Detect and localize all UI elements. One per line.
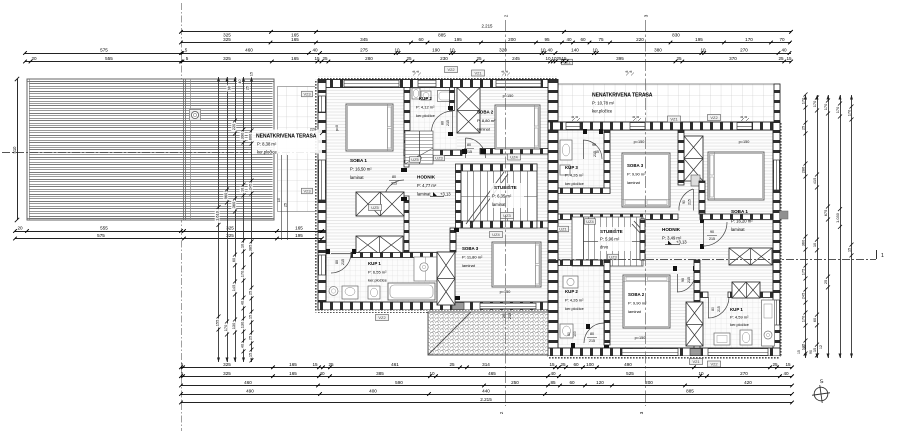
svg-text:8: 8	[412, 70, 416, 72]
svg-text:+3,13: +3,13	[676, 240, 687, 245]
svg-text:461: 461	[391, 362, 399, 367]
svg-text:8: 8	[740, 116, 744, 118]
svg-text:800: 800	[248, 133, 253, 140]
svg-text:325: 325	[223, 37, 231, 42]
svg-text:465: 465	[488, 371, 496, 376]
svg-text:170: 170	[223, 324, 228, 331]
svg-text:314: 314	[482, 362, 490, 367]
svg-text:40: 40	[319, 371, 325, 376]
svg-text:UZ4: UZ4	[586, 219, 594, 224]
svg-text:KUP 3: KUP 3	[565, 165, 578, 170]
svg-text:STUBIŠTE: STUBIŠTE	[600, 227, 623, 234]
svg-text:5: 5	[185, 48, 188, 53]
svg-text:P: 8,80 m²: P: 8,80 m²	[477, 118, 496, 123]
svg-text:15: 15	[249, 72, 253, 76]
svg-text:15: 15	[797, 350, 801, 354]
svg-text:360: 360	[800, 239, 805, 246]
svg-text:170: 170	[846, 109, 851, 116]
svg-text:525: 525	[626, 371, 634, 376]
svg-text:25: 25	[284, 203, 288, 207]
svg-text:830: 830	[672, 32, 680, 37]
terrace deck hatch	[27, 79, 274, 220]
svg-text:215: 215	[341, 259, 345, 265]
bottom wall windows	[452, 303, 464, 310]
svg-text:195: 195	[695, 37, 703, 42]
svg-text:8: 8	[744, 116, 748, 118]
svg-text:245: 245	[800, 293, 805, 300]
svg-text:40: 40	[566, 37, 572, 42]
svg-text:80: 80	[392, 175, 396, 179]
right vertical dim chains	[805, 95, 807, 358]
svg-text:20: 20	[31, 56, 37, 61]
svg-text:90: 90	[710, 230, 714, 234]
svg-text:UZ5: UZ5	[411, 157, 419, 162]
svg-text:345: 345	[360, 37, 368, 42]
svg-text:100: 100	[586, 362, 594, 367]
door arc SOBA2-left	[466, 138, 486, 158]
svg-text:575: 575	[100, 48, 108, 53]
svg-text:laminat: laminat	[627, 180, 641, 185]
KUP2-right walls	[558, 260, 610, 266]
svg-text:UZ5: UZ5	[371, 205, 379, 210]
svg-text:SOBA 1: SOBA 1	[731, 209, 748, 214]
right terrace (nenatkrivena terasa)	[557, 84, 780, 122]
svg-text:ker.pločice: ker.pločice	[565, 306, 585, 311]
door arc KUP3	[583, 140, 602, 159]
wall SOBA1 | KUP2/HODNIK	[404, 88, 410, 156]
vent box below shaft	[691, 175, 700, 186]
svg-text:2: 2	[504, 14, 509, 17]
svg-text:96: 96	[227, 86, 231, 90]
svg-text:P: 6,55 m²: P: 6,55 m²	[368, 270, 387, 275]
outer wall: right block right	[780, 122, 783, 356]
svg-text:SOBA 1: SOBA 1	[350, 158, 367, 163]
svg-text:V21: V21	[692, 359, 700, 364]
svg-text:215: 215	[593, 151, 597, 157]
svg-text:270: 270	[740, 371, 748, 376]
svg-text:220: 220	[636, 37, 644, 42]
deck joint lines	[183, 79, 185, 220]
svg-text:60: 60	[580, 37, 586, 42]
door arc KUP2-right	[584, 323, 604, 343]
svg-text:UZ3: UZ3	[609, 255, 617, 260]
KUP2-right fixtures	[563, 276, 578, 288]
svg-text:325: 325	[223, 362, 231, 367]
top dimension row 1	[181, 31, 791, 33]
bed SOBA3-right	[622, 153, 670, 207]
bottom dimension row 1	[181, 367, 792, 369]
KUP2-left fixtures	[438, 91, 453, 102]
svg-text:40: 40	[238, 79, 242, 83]
svg-text:UZ3: UZ3	[435, 156, 443, 161]
stairs small flight (hodnik)	[405, 131, 433, 164]
svg-text:8: 8	[501, 70, 505, 72]
svg-text:90: 90	[592, 143, 596, 147]
svg-text:P: 4,26 m²: P: 4,26 m²	[565, 173, 584, 178]
top dimension row 2	[181, 42, 791, 44]
wall stubiste row top	[558, 214, 678, 220]
right block floor	[558, 130, 774, 348]
KUP3 fixtures	[560, 140, 572, 160]
svg-text:385: 385	[376, 371, 384, 376]
svg-text:380: 380	[654, 48, 662, 53]
bed SOBA2-left	[495, 105, 540, 149]
svg-text:15: 15	[561, 56, 567, 61]
svg-text:25: 25	[328, 362, 334, 367]
wall above KUP1-left	[351, 253, 437, 258]
compass (north)	[811, 384, 831, 404]
svg-text:15: 15	[786, 56, 792, 61]
svg-text:170: 170	[800, 97, 805, 104]
svg-text:V21: V21	[474, 71, 482, 76]
svg-text:5: 5	[181, 371, 184, 376]
svg-text:8: 8	[625, 70, 629, 72]
wall KUP1-left right	[450, 228, 456, 252]
svg-text:100: 100	[573, 331, 577, 337]
wall SOBA3-left top is stairwell bottom; small wall stub	[537, 221, 548, 228]
svg-text:8: 8	[636, 116, 640, 118]
svg-text:215: 215	[466, 150, 472, 154]
svg-text:80: 80	[335, 260, 339, 264]
wall SOBA2/KUP1 right	[694, 260, 700, 348]
svg-text:490: 490	[624, 362, 632, 367]
shaft right block upper	[684, 136, 703, 181]
stair direction circle	[417, 156, 421, 160]
svg-text:1: 1	[881, 253, 884, 259]
svg-text:80: 80	[567, 332, 571, 336]
bed SOBA3-left	[492, 242, 541, 287]
porch tiled strip	[278, 87, 316, 212]
svg-text:460: 460	[244, 380, 252, 385]
outer wall: left block top	[318, 77, 558, 80]
left block floor	[326, 88, 548, 302]
svg-text:575: 575	[97, 233, 105, 238]
deck bottom dims	[15, 231, 322, 233]
svg-text:960: 960	[223, 192, 228, 199]
svg-text:25: 25	[800, 126, 805, 130]
svg-text:10: 10	[394, 48, 400, 53]
svg-text:885: 885	[438, 32, 446, 37]
svg-text:195: 195	[295, 233, 303, 238]
svg-text:40: 40	[781, 48, 787, 53]
svg-text:215: 215	[687, 277, 691, 283]
svg-text:2: 2	[499, 411, 504, 414]
svg-text:80: 80	[590, 332, 594, 336]
axis 3	[645, 20, 647, 406]
svg-text:275: 275	[360, 48, 368, 53]
svg-text:3: 3	[644, 14, 649, 17]
svg-text:145: 145	[231, 285, 236, 292]
svg-text:KUP 1: KUP 1	[368, 261, 381, 266]
stairs right block	[572, 217, 643, 266]
svg-text:p=150: p=150	[634, 140, 645, 144]
svg-text:215: 215	[709, 237, 715, 241]
svg-text:HODNIK: HODNIK	[662, 227, 681, 232]
svg-text:25: 25	[772, 362, 778, 367]
left wall window openings	[319, 96, 326, 112]
svg-text:15: 15	[314, 56, 320, 61]
svg-text:170: 170	[835, 106, 840, 113]
svg-text:P: 4,26 m²: P: 4,26 m²	[565, 298, 584, 303]
svg-text:60: 60	[418, 37, 424, 42]
svg-text:170: 170	[240, 270, 245, 277]
axis 2	[505, 20, 507, 406]
svg-text:165: 165	[295, 226, 303, 231]
right terrace right edge wall	[774, 84, 780, 122]
section line 1-1	[2, 152, 320, 154]
stairwell left block	[461, 164, 537, 228]
svg-text:215: 215	[446, 120, 450, 126]
svg-text:ker.pločice: ker.pločice	[257, 149, 277, 154]
deck left vertical dim	[17, 79, 19, 220]
svg-text:170: 170	[745, 37, 753, 42]
svg-text:25: 25	[449, 362, 455, 367]
outer wall: left block left	[315, 80, 318, 313]
svg-text:25: 25	[560, 362, 566, 367]
svg-text:25: 25	[248, 291, 253, 295]
bathtub KUP1-left	[388, 283, 435, 300]
outer wall: left block bottom	[318, 302, 548, 310]
bed SOBA1	[346, 104, 393, 151]
svg-text:20: 20	[17, 226, 23, 231]
svg-text:12: 12	[819, 345, 823, 349]
outer wall: right block top (under terrace)	[548, 122, 780, 130]
svg-text:P: 8,38 m²: P: 8,38 m²	[257, 142, 277, 147]
bed SOBA1-right	[708, 152, 764, 200]
svg-text:60: 60	[569, 380, 575, 385]
wall SOBA2-left bottom	[480, 149, 548, 155]
gray marker right wall	[780, 211, 789, 219]
door jambs (black)	[401, 168, 407, 172]
svg-text:KUP 1: KUP 1	[730, 307, 743, 312]
svg-text:280: 280	[365, 56, 373, 61]
svg-text:8: 8	[629, 70, 633, 72]
KUP1-right fixtures	[762, 300, 775, 346]
svg-text:360: 360	[231, 201, 236, 208]
svg-text:SOBA 2: SOBA 2	[477, 110, 494, 115]
svg-text:215: 215	[717, 306, 721, 312]
svg-text:510: 510	[12, 146, 17, 154]
svg-text:80: 80	[467, 143, 471, 147]
svg-text:325: 325	[223, 371, 231, 376]
svg-text:laminat: laminat	[477, 127, 491, 132]
svg-text:230: 230	[440, 56, 448, 61]
door arc SOBA2-right	[677, 274, 695, 292]
svg-text:70: 70	[779, 37, 785, 42]
axis line (dash-dot vertical, left)	[181, 3, 183, 431]
top dimension row 4	[25, 61, 791, 63]
svg-text:400: 400	[369, 389, 377, 394]
svg-text:P: 9,90 m²: P: 9,90 m²	[627, 172, 646, 177]
svg-text:385: 385	[248, 245, 253, 252]
svg-text:245: 245	[248, 184, 253, 191]
svg-text:UZ4: UZ4	[510, 155, 518, 160]
svg-text:130: 130	[231, 322, 236, 329]
svg-text:75: 75	[598, 37, 604, 42]
party wall (center, shared)	[548, 80, 558, 357]
svg-text:V22: V22	[710, 362, 718, 367]
svg-text:KUP 2: KUP 2	[565, 289, 578, 294]
svg-text:40: 40	[547, 48, 553, 53]
svg-text:555: 555	[105, 56, 113, 61]
svg-text:VZ2: VZ2	[710, 115, 718, 120]
svg-text:ker.pločice: ker.pločice	[565, 181, 585, 186]
svg-text:25: 25	[322, 56, 328, 61]
svg-text:15: 15	[312, 362, 318, 367]
svg-text:P: 4,77 m²: P: 4,77 m²	[417, 183, 437, 188]
door arc hodnik->soba1	[703, 222, 727, 246]
svg-text:10: 10	[429, 371, 435, 376]
svg-text:2.215: 2.215	[482, 24, 494, 29]
svg-text:420: 420	[744, 380, 752, 385]
bottom dimension row 2	[181, 376, 792, 378]
svg-text:460: 460	[245, 48, 253, 53]
svg-text:KUP 2: KUP 2	[419, 96, 432, 101]
wall left of stairwell	[456, 164, 462, 228]
svg-text:NENATKRIVENA TERASA: NENATKRIVENA TERASA	[592, 93, 653, 99]
svg-text:415: 415	[812, 178, 817, 185]
svg-text:NENATKRIVENA TERASA: NENATKRIVENA TERASA	[256, 134, 317, 140]
bathroom tile floors	[410, 88, 457, 150]
bottom dimension row 5	[181, 402, 792, 404]
wall KUP1-right top	[700, 292, 708, 298]
entry door arc KUP1-left	[331, 253, 351, 273]
svg-text:885: 885	[686, 389, 694, 394]
svg-text:ker.pločice: ker.pločice	[592, 109, 613, 114]
svg-text:3: 3	[639, 411, 644, 414]
outer wall: right block bottom	[548, 348, 780, 356]
svg-text:195: 195	[454, 37, 462, 42]
svg-text:220: 220	[310, 127, 317, 132]
shaft left block	[457, 88, 480, 134]
svg-text:215: 215	[589, 339, 595, 343]
svg-text:80: 80	[711, 307, 715, 311]
svg-text:10: 10	[545, 56, 551, 61]
svg-text:40: 40	[783, 371, 789, 376]
svg-text:UZ4: UZ4	[492, 232, 500, 237]
svg-text:200: 200	[508, 37, 516, 42]
svg-text:140: 140	[571, 48, 579, 53]
svg-text:215: 215	[391, 182, 397, 186]
door arc SOBA3-right	[679, 189, 693, 211]
svg-text:40: 40	[550, 371, 556, 376]
wardrobe above KUP1	[356, 236, 403, 254]
svg-text:8: 8	[416, 70, 420, 72]
svg-text:215: 215	[508, 313, 512, 319]
svg-text:15: 15	[248, 353, 253, 357]
door arc KUP2-left	[432, 111, 453, 132]
svg-text:555: 555	[100, 226, 108, 231]
svg-text:165: 165	[291, 56, 299, 61]
shaft left block lower	[437, 252, 455, 305]
svg-text:p=150: p=150	[739, 140, 750, 144]
svg-text:270: 270	[740, 48, 748, 53]
svg-text:laminat: laminat	[731, 227, 745, 232]
svg-text:15: 15	[549, 362, 555, 367]
svg-text:165: 165	[291, 37, 299, 42]
svg-text:170: 170	[823, 103, 828, 110]
svg-text:P: 5,96 m²: P: 5,96 m²	[600, 237, 620, 242]
svg-text:drvo: drvo	[600, 245, 609, 250]
small boxed labels	[445, 67, 458, 73]
svg-text:590: 590	[395, 380, 403, 385]
wardrobe SOBA1-right	[729, 248, 772, 265]
svg-text:95: 95	[544, 37, 550, 42]
svg-text:10: 10	[698, 371, 704, 376]
svg-text:390: 390	[240, 132, 245, 139]
svg-text:25: 25	[406, 56, 412, 61]
svg-text:P: 10,78 m²: P: 10,78 m²	[592, 101, 615, 106]
svg-text:85: 85	[550, 380, 556, 385]
svg-text:10: 10	[277, 198, 281, 202]
svg-text:10: 10	[592, 48, 598, 53]
wall right of KUP2	[450, 88, 455, 111]
svg-text:200: 200	[645, 380, 653, 385]
svg-text:245: 245	[512, 56, 520, 61]
svg-text:130: 130	[240, 321, 245, 328]
svg-text:laminat: laminat	[462, 263, 476, 268]
svg-text:10: 10	[540, 48, 546, 53]
svg-text:laminat: laminat	[350, 175, 364, 180]
svg-text:90: 90	[809, 350, 813, 354]
svg-text:P: 4,59 m²: P: 4,59 m²	[730, 315, 749, 320]
svg-text:p=150: p=150	[635, 336, 646, 340]
boiler closet KUP1	[414, 257, 437, 281]
svg-text:P: 9,90 m²: P: 9,90 m²	[628, 301, 647, 306]
svg-text:215: 215	[688, 199, 692, 205]
svg-text:165: 165	[289, 362, 297, 367]
svg-text:P: 11,80 m²: P: 11,80 m²	[462, 255, 483, 260]
svg-text:90: 90	[682, 200, 686, 204]
svg-text:320: 320	[499, 48, 507, 53]
svg-text:370: 370	[729, 56, 737, 61]
svg-text:25: 25	[803, 345, 807, 349]
svg-text:UZ1: UZ1	[559, 227, 567, 232]
svg-text:25: 25	[476, 56, 482, 61]
svg-text:10: 10	[700, 48, 706, 53]
top wall windows left block	[344, 80, 399, 87]
wall KUP2 bottom	[404, 150, 462, 156]
svg-text:490: 490	[246, 389, 254, 394]
svg-text:90: 90	[681, 278, 685, 282]
door arc HODNIK-SOBA1	[384, 180, 404, 200]
svg-text:15: 15	[785, 362, 791, 367]
wardrobe SOBA1	[356, 192, 404, 216]
svg-text:10: 10	[449, 48, 455, 53]
svg-text:25: 25	[246, 86, 250, 90]
svg-text:190: 190	[432, 48, 440, 53]
top dimension row 3	[25, 53, 791, 55]
mid vertical dim chains	[218, 77, 220, 362]
wall stubiste/hodnik right	[640, 219, 645, 260]
svg-text:8: 8	[571, 116, 575, 118]
deck terrace label	[252, 130, 322, 154]
wardrobe 2 right block	[732, 282, 760, 298]
svg-text:250: 250	[511, 380, 519, 385]
pebble walkway	[428, 312, 548, 355]
svg-text:440: 440	[482, 389, 490, 394]
svg-text:60: 60	[573, 362, 579, 367]
svg-text:P: 16,50 m²: P: 16,50 m²	[350, 167, 372, 172]
svg-text:laminat: laminat	[417, 192, 431, 197]
svg-text:80: 80	[441, 121, 445, 125]
svg-text:2.215: 2.215	[480, 397, 492, 402]
svg-text:5: 5	[181, 362, 184, 367]
svg-text:p=150: p=150	[500, 290, 511, 294]
wall below shaft right block	[699, 181, 705, 214]
bottom dimension row 3	[181, 385, 792, 387]
bed SOBA2-right	[623, 275, 670, 328]
